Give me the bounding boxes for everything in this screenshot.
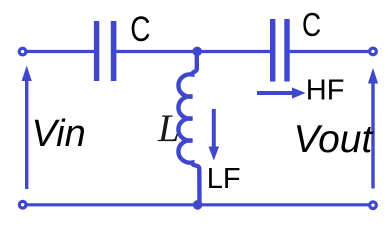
LF current arrow (down) (212, 109, 216, 151)
terminal bottom-right open circle (370, 202, 377, 209)
capacitor C1 right plate (111, 21, 117, 81)
svg-text:HF: HF (306, 74, 345, 106)
terminal top-left open circle (19, 48, 26, 55)
capacitor C2 right plate (284, 19, 289, 82)
Vout voltage arrow (up) (371, 80, 374, 189)
svg-text:LF: LF (207, 163, 241, 195)
inductor L coil with wire stubs (178, 52, 199, 205)
svg-text:C: C (130, 9, 150, 49)
svg-text:C: C (302, 7, 321, 43)
wire bottom segment (28, 203, 369, 206)
svg-text:L: L (157, 107, 180, 150)
node junction dot bottom (193, 200, 203, 210)
wire top-middle segment (117, 50, 271, 53)
terminal top-right open circle (370, 48, 377, 55)
HF current arrow (right) (257, 91, 296, 95)
capacitor C2 left plate (270, 19, 275, 82)
wire top-right segment (290, 50, 369, 53)
svg-text:Vout: Vout (294, 118, 375, 161)
Vin voltage arrow (up) (25, 78, 28, 189)
terminal bottom-left open circle (19, 201, 26, 208)
svg-text:Vin: Vin (32, 113, 86, 155)
node junction dot top (between capacitors) (192, 47, 202, 57)
capacitor C1 left plate (94, 21, 99, 81)
wire top-left segment (27, 50, 94, 53)
